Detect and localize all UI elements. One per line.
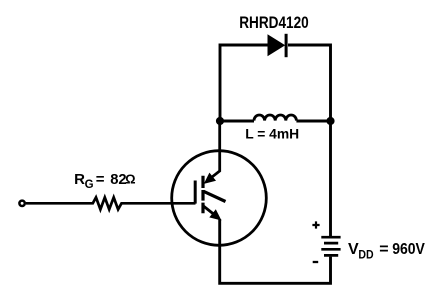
svg-text:=: = <box>379 241 388 258</box>
svg-text:DD: DD <box>358 247 373 261</box>
svg-text:960V: 960V <box>392 241 425 258</box>
svg-text:L = 4mH: L = 4mH <box>245 126 299 142</box>
svg-text:RHRD4120: RHRD4120 <box>239 14 309 32</box>
svg-text:=: = <box>96 171 105 188</box>
svg-text:G: G <box>85 179 94 191</box>
svg-text:R: R <box>74 171 85 188</box>
svg-text:Ω: Ω <box>125 172 135 187</box>
svg-text:V: V <box>348 241 359 258</box>
